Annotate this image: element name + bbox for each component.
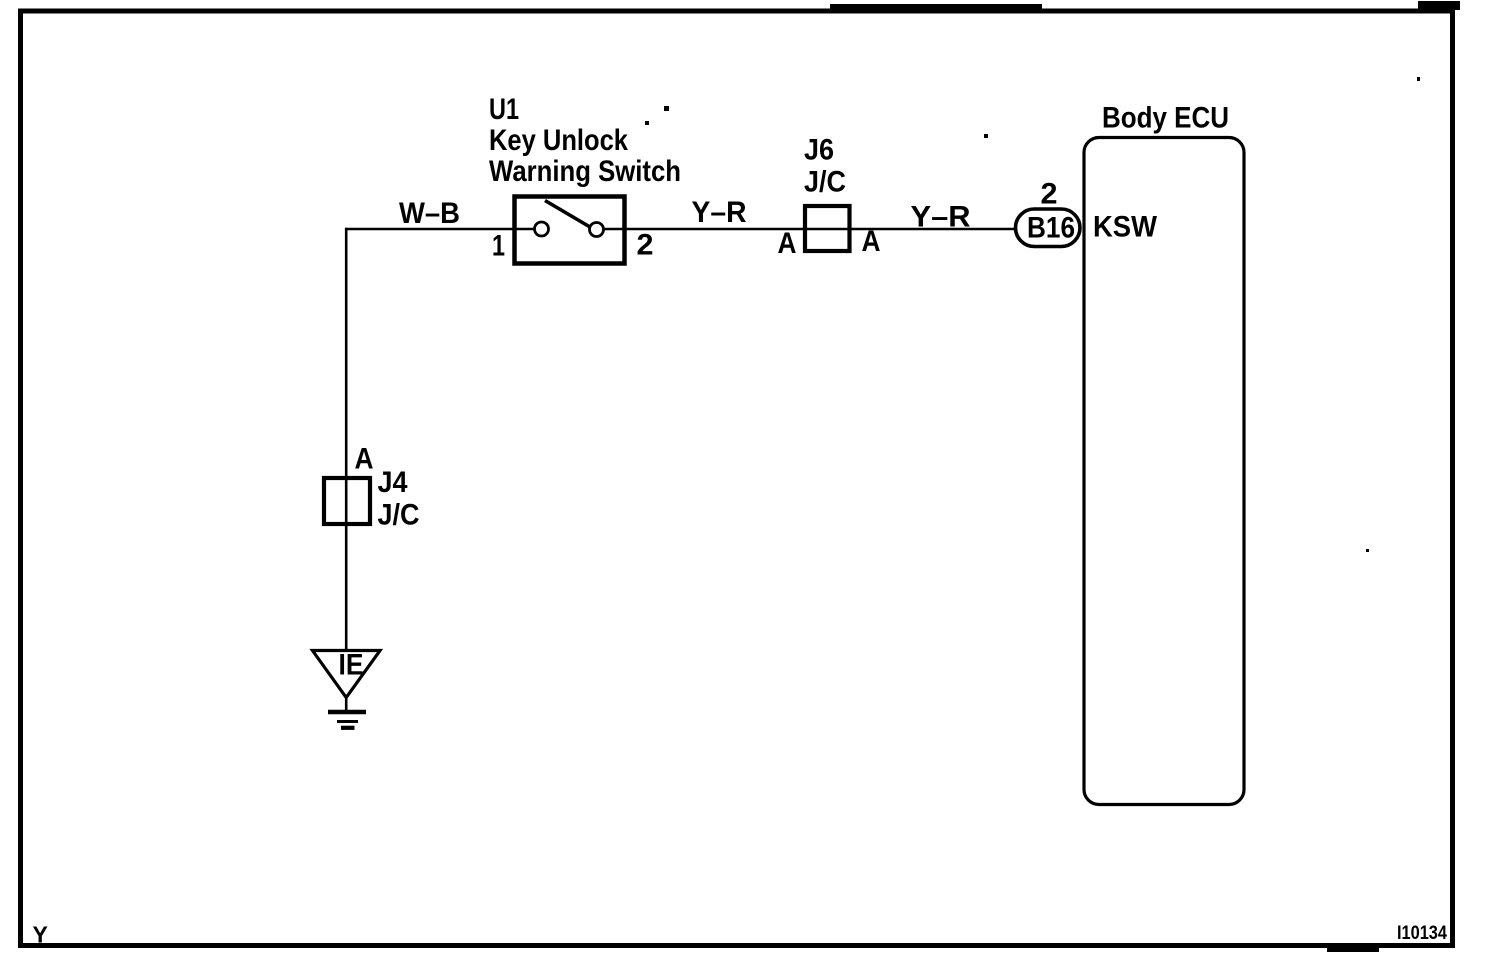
svg-text:A: A [355, 443, 374, 476]
svg-text:A: A [778, 227, 797, 260]
junction connector J6 [805, 206, 850, 251]
svg-text:1: 1 [492, 230, 505, 263]
wire W-B: horizontal from corner to switch pin 1 [345, 228, 536, 231]
svg-text:U1: U1 [489, 93, 519, 126]
svg-text:A: A [862, 225, 881, 258]
svg-text:J6: J6 [804, 134, 834, 167]
svg-text:IE: IE [339, 649, 364, 682]
svg-text:Key Unlock: Key Unlock [489, 124, 628, 157]
svg-text:J/C: J/C [804, 166, 846, 199]
svg-text:J/C: J/C [378, 499, 420, 532]
junction connector J4 [324, 478, 370, 524]
svg-text:I10134: I10134 [1397, 923, 1447, 944]
svg-text:Y: Y [33, 922, 48, 948]
svg-text:Body ECU: Body ECU [1102, 102, 1229, 135]
svg-text:W–B: W–B [399, 197, 460, 230]
svg-text:Warning Switch: Warning Switch [489, 155, 681, 188]
wire W-B: vertical drop from corner to J4 and ground [345, 228, 348, 652]
svg-text:J4: J4 [378, 466, 408, 499]
svg-text:2: 2 [1041, 178, 1058, 211]
ECU block: Body ECU [1084, 138, 1244, 805]
connector B16 oval [1016, 209, 1081, 247]
svg-text:Y–R: Y–R [692, 196, 747, 229]
svg-text:2: 2 [637, 229, 654, 262]
svg-text:KSW: KSW [1093, 211, 1158, 244]
wire Y-R: switch pin 2 through J6 to B16 connector [603, 228, 1015, 231]
svg-text:Y–R: Y–R [911, 201, 971, 234]
svg-text:B16: B16 [1027, 212, 1075, 245]
ground IE [313, 649, 381, 728]
switch U1 Key Unlock Warning Switch [515, 197, 625, 264]
scan noise specks (decorative) [645, 77, 1420, 552]
